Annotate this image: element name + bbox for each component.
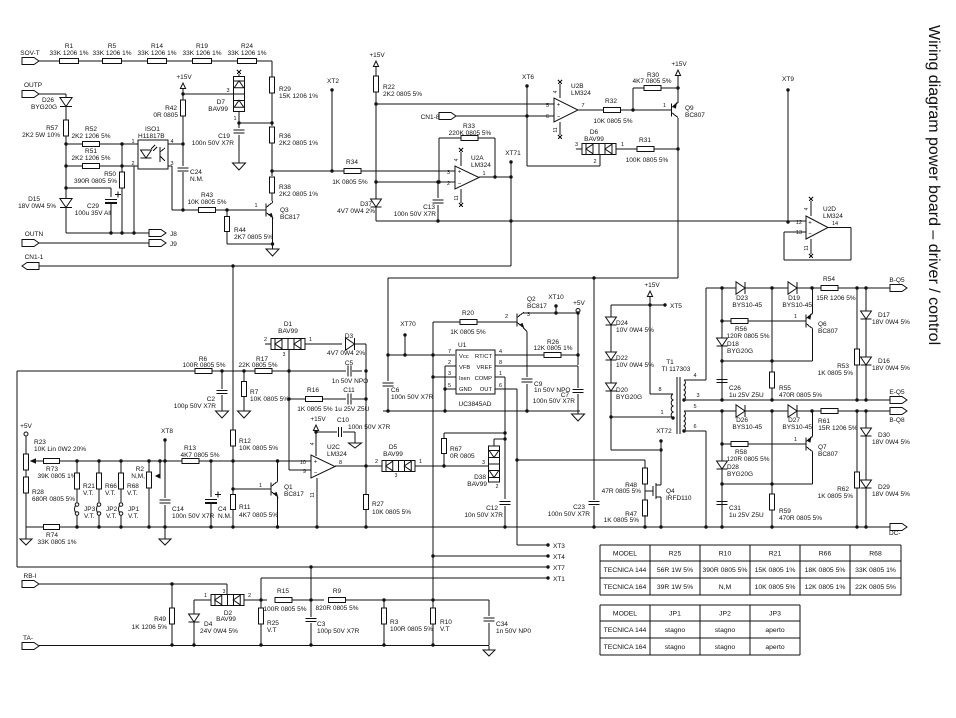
capacitor C4 electrolytic (210, 461, 212, 497)
wire Q9 collector down (677, 118, 679, 278)
node R59 mid (770, 482, 773, 485)
R2 wiper (158, 459, 161, 462)
svg-text:3: 3 (447, 170, 450, 176)
svg-text:2: 2 (505, 314, 508, 320)
optocoupler ISO1 (138, 140, 168, 169)
svg-text:R25: R25 (267, 620, 279, 627)
svg-text:18V 0W4 5%: 18V 0W4 5% (872, 319, 910, 326)
svg-text:C23: C23 (573, 504, 585, 511)
capacitor C19 (238, 123, 240, 128)
wire D5 to R67/D38 (415, 465, 489, 467)
node Vcc/R20 branch (431, 353, 434, 356)
svg-text:−: − (808, 232, 812, 238)
node Q3 emitter (271, 242, 274, 245)
node XT4 branch (431, 554, 434, 557)
svg-text:BYS10-45: BYS10-45 (782, 302, 812, 309)
node R30/+15V (676, 86, 679, 89)
svg-text:R56: R56 (735, 326, 747, 333)
wire Q7 collector line (722, 483, 813, 485)
svg-text:C29: C29 (87, 203, 99, 210)
wire R56 line (722, 320, 731, 322)
transistor Q7 BC807 pnp (805, 438, 807, 451)
svg-text:1K 0805 5%: 1K 0805 5% (332, 179, 368, 186)
svg-text:100n 50V X7R: 100n 50V X7R (533, 398, 576, 405)
svg-text:R55: R55 (779, 385, 791, 392)
transistor Q2 BC817 (516, 314, 518, 327)
svg-text:R22: R22 (383, 84, 395, 91)
node R53 top (855, 286, 858, 289)
svg-text:2: 2 (448, 360, 451, 366)
wire ISO pin4 to R42 line (168, 143, 183, 145)
svg-text:JP2: JP2 (106, 506, 118, 513)
diode D17 zener (865, 288, 867, 311)
node R50 bottom (120, 231, 123, 234)
svg-text:R52: R52 (85, 126, 97, 133)
svg-text:Vcc: Vcc (459, 354, 469, 360)
svg-text:4V7 0W4 2%: 4V7 0W4 2% (337, 208, 375, 215)
svg-text:XT72: XT72 (656, 428, 672, 435)
svg-text:BAV99: BAV99 (584, 136, 604, 143)
resistor R56 (731, 318, 748, 323)
capacitor C5 (347, 366, 349, 377)
node JP bottoms (75, 525, 78, 528)
svg-text:24V 0W4 5%: 24V 0W4 5% (200, 628, 238, 635)
svg-text:COMP: COMP (475, 376, 493, 382)
svg-text:BYG20G: BYG20G (31, 104, 57, 111)
svg-text:R68: R68 (869, 550, 882, 557)
U2D power pins (810, 201, 812, 216)
svg-text:BC807: BC807 (685, 112, 705, 119)
capacitor C29 electrolytic (105, 198, 117, 200)
wire R36 to node (271, 143, 273, 176)
svg-text:+15V: +15V (176, 74, 192, 81)
svg-text:C24: C24 (190, 169, 202, 176)
wire to C29 (66, 187, 111, 189)
op-amp U2A (454, 170, 456, 172)
node R62 rail (855, 525, 858, 528)
svg-text:U2B: U2B (571, 83, 584, 90)
svg-text:R36: R36 (279, 133, 291, 140)
wire RT/CT to R26 (495, 354, 544, 356)
node D4 rail (192, 643, 195, 646)
node T1 pin1 line (609, 415, 612, 418)
wire D28 vertical (721, 411, 723, 527)
svg-text:LM324: LM324 (471, 162, 491, 169)
svg-text:1: 1 (204, 593, 207, 599)
svg-text:D38: D38 (474, 474, 486, 481)
svg-text:LM324: LM324 (823, 213, 843, 220)
capacitor C12 (500, 500, 511, 502)
node R27 rail (364, 525, 367, 528)
capacitor C26 (721, 361, 723, 378)
resistor R32 (604, 107, 621, 112)
capacitor C9 (522, 378, 533, 380)
svg-text:+15V: +15V (671, 61, 687, 68)
wire R57 node down (65, 144, 67, 166)
svg-text:XT71: XT71 (505, 150, 521, 157)
wire R59 vertical (771, 411, 773, 494)
wire U2C pin9 (289, 469, 311, 471)
wire XT70 down (404, 335, 406, 355)
svg-text:V.T.: V.T. (128, 513, 139, 520)
node C6 bottom rail (386, 409, 389, 412)
svg-text:BC817: BC817 (284, 491, 304, 498)
svg-text:3: 3 (395, 473, 398, 479)
svg-text:IRFD110: IRFD110 (666, 495, 692, 502)
node R25 rail (259, 643, 262, 646)
svg-text:R14: R14 (151, 43, 163, 50)
svg-text:D20: D20 (616, 387, 628, 394)
svg-text:R42: R42 (165, 105, 177, 112)
svg-text:R23: R23 (34, 439, 46, 446)
svg-text:Q2: Q2 (527, 296, 536, 303)
svg-text:390R 0805 5%: 390R 0805 5% (74, 178, 117, 185)
ground XT8 (164, 527, 166, 539)
node R53 EQ5 (855, 398, 858, 401)
svg-text:4: 4 (454, 158, 460, 161)
diode D16 zener (861, 357, 872, 365)
wire XT3 line (517, 544, 548, 546)
node Isen (431, 375, 434, 378)
resistor R74 (44, 524, 60, 529)
svg-text:R27: R27 (372, 501, 384, 508)
svg-text:3: 3 (448, 371, 451, 377)
svg-text:D4: D4 (204, 621, 213, 628)
node +15V R42/D7 (181, 92, 184, 95)
connector SOV-T (22, 58, 39, 65)
svg-text:1u 25V Z5U: 1u 25V Z5U (729, 512, 764, 519)
svg-text:V.T.: V.T. (83, 490, 94, 497)
jumper JP1 (119, 503, 123, 507)
svg-text:33K 1206 1%: 33K 1206 1% (92, 50, 131, 57)
svg-text:R32: R32 (605, 98, 617, 105)
resistor R49 (171, 584, 173, 608)
svg-text:J9: J9 (170, 241, 177, 248)
svg-text:D1: D1 (284, 321, 293, 328)
svg-text:6: 6 (546, 114, 549, 120)
node R47 rail (643, 525, 646, 528)
svg-text:3: 3 (696, 393, 699, 399)
svg-text:1: 1 (499, 371, 502, 377)
node R55 EQ5 (770, 398, 773, 401)
svg-text:U2C: U2C (327, 444, 340, 451)
svg-text:CN1-8: CN1-8 (421, 114, 440, 121)
node Q4 source rail (659, 525, 662, 528)
diode D28 zener (717, 461, 728, 469)
wire ISO pin3 to R43 line (168, 165, 172, 167)
wire R16 line (289, 398, 306, 400)
svg-text:BAV99: BAV99 (383, 451, 403, 458)
svg-text:100n 50V X7R: 100n 50V X7R (548, 511, 591, 518)
svg-text:2K7 0805 5%: 2K7 0805 5% (234, 234, 273, 241)
svg-text:2: 2 (264, 337, 267, 343)
resistor R73 (44, 458, 60, 463)
node U2C out/R27 (364, 464, 367, 467)
resistor R59 (769, 494, 774, 510)
svg-text:4V7 0W4 2%: 4V7 0W4 2% (327, 350, 365, 357)
node GND pin5 to rail (443, 387, 446, 390)
svg-text:8: 8 (499, 360, 502, 366)
svg-text:V.T.: V.T. (84, 513, 95, 520)
wire node down to D15 (65, 166, 67, 199)
svg-text:33K 1206 1%: 33K 1206 1% (182, 50, 221, 57)
svg-text:5: 5 (448, 383, 451, 389)
resistor R30 wire (632, 88, 634, 110)
node Vcc line left (386, 353, 389, 356)
diode D23 (736, 282, 745, 294)
svg-text:XT6: XT6 (522, 74, 534, 81)
svg-text:100p 50V X7R: 100p 50V X7R (174, 403, 217, 410)
svg-text:R3: R3 (390, 619, 399, 626)
svg-text:B-Q8: B-Q8 (889, 417, 905, 424)
wire E-Q5 rail (684, 399, 890, 401)
svg-text:BYS10-45: BYS10-45 (782, 424, 812, 431)
svg-text:10V 0W4 5%: 10V 0W4 5% (616, 362, 654, 369)
capacitor C24 (178, 167, 189, 169)
svg-text:N.M.: N.M. (218, 513, 232, 520)
ground C19 (233, 163, 246, 170)
wire R73 to rail (59, 460, 182, 462)
wire D38 branch (494, 438, 505, 440)
wire +15V to D7 pin3 (183, 93, 234, 95)
ground left rail (25, 527, 27, 539)
wire J8 line (66, 232, 149, 234)
svg-text:6: 6 (499, 383, 502, 389)
svg-text:56R 1W 5%: 56R 1W 5% (657, 567, 693, 574)
svg-text:2K2 5W 10%: 2K2 5W 10% (22, 132, 60, 139)
node XT7 (546, 565, 549, 568)
svg-text:R2: R2 (136, 466, 145, 473)
svg-text:+: + (314, 460, 318, 466)
resistor R55 (769, 372, 774, 388)
svg-text:T1: T1 (666, 359, 674, 366)
node XT70/Vcc (403, 353, 406, 356)
wire VREF pin8 (495, 365, 578, 367)
svg-text:15R 1206 5%: 15R 1206 5% (818, 425, 858, 432)
wire U2C out (335, 465, 382, 467)
resistor R21 V.T. (75, 459, 78, 462)
diode D20 zener (606, 383, 617, 391)
svg-text:2: 2 (248, 593, 251, 599)
wire R50 vertical link (121, 144, 123, 172)
wire R20/Isen vertical (432, 322, 434, 645)
jumper JP3 (75, 503, 79, 507)
svg-text:1: 1 (419, 459, 422, 465)
diode D18 zener (717, 338, 728, 346)
svg-text:D16: D16 (878, 358, 890, 365)
svg-text:stagno: stagno (665, 644, 686, 651)
node T1 pin5 (720, 409, 723, 412)
diode D15 zener (60, 199, 72, 208)
svg-text:D26: D26 (736, 417, 748, 424)
node D18/C26 (720, 359, 723, 362)
wire U2D feedback loop (784, 231, 806, 233)
svg-text:R25: R25 (669, 550, 682, 557)
resistor R66 V.T. (97, 459, 100, 462)
svg-text:ISO1: ISO1 (145, 126, 160, 133)
node R49 rail (170, 643, 173, 646)
wire U2A output (479, 176, 511, 178)
wire Q1 base (233, 488, 271, 490)
resistor R24 (238, 58, 257, 63)
svg-text:C31: C31 (729, 505, 741, 512)
svg-text:GND: GND (459, 387, 472, 393)
node CN1-1/R12 branch (231, 264, 234, 267)
svg-text:33K 0805 1%: 33K 0805 1% (855, 567, 896, 574)
node D18 top (720, 286, 723, 289)
svg-text:15K 1206 1%: 15K 1206 1% (279, 93, 318, 100)
node C23 bottom rail (592, 525, 595, 528)
node OUT/R48 line (515, 458, 518, 461)
svg-text:7: 7 (448, 349, 451, 355)
svg-text:10n 50V X7R: 10n 50V X7R (464, 512, 503, 519)
svg-text:R38: R38 (279, 184, 291, 191)
node R10 rail (431, 643, 434, 646)
node D29 rail (864, 525, 867, 528)
svg-text:N.M.: N.M. (190, 176, 204, 183)
svg-text:DC-: DC- (889, 530, 901, 537)
svg-text:2: 2 (447, 181, 450, 187)
wire XT9 down (787, 90, 789, 222)
svg-text:−: − (458, 182, 462, 188)
node pin2 bottom (132, 231, 135, 234)
node D28/C31 (720, 482, 723, 485)
node D2/R25/XT1 (259, 598, 262, 601)
wire D7 pin1 down (238, 112, 240, 124)
svg-text:1: 1 (131, 139, 134, 145)
capacitor C3 (310, 600, 312, 617)
node R56 line (720, 319, 723, 322)
svg-text:100p 50V X7R: 100p 50V X7R (317, 628, 360, 635)
wire CN1-1 to R12 (232, 266, 234, 430)
node R3 rail (382, 643, 385, 646)
svg-text:22K 0805 5%: 22K 0805 5% (238, 362, 277, 369)
node R15/R9/C3 (309, 598, 312, 601)
dual diode D6 (582, 144, 616, 155)
node R22/U2B+ line (374, 102, 377, 105)
svg-text:U2A: U2A (471, 155, 484, 162)
svg-text:680R 0805 5%: 680R 0805 5% (32, 496, 75, 503)
node Q9/R31 (676, 147, 679, 150)
transistor Q9 BC807 pnp (671, 104, 673, 117)
resistor R16 (306, 396, 323, 401)
svg-text:220K 0805 5%: 220K 0805 5% (449, 130, 492, 137)
wire to U2B+ (376, 103, 554, 105)
svg-text:47R 0805 5%: 47R 0805 5% (602, 488, 642, 495)
node D1 pin3 (287, 369, 290, 372)
op-amp U2B (554, 98, 578, 122)
svg-text:D23: D23 (736, 295, 748, 302)
svg-text:C11: C11 (343, 387, 355, 394)
svg-text:R21: R21 (83, 483, 95, 490)
node C13 top (436, 180, 439, 183)
wire R50 to J8 line (121, 188, 123, 233)
node +15V/T1 pin8 (648, 303, 651, 306)
wire Q1 collector/emitter (277, 461, 279, 481)
svg-text:8: 8 (658, 387, 661, 393)
svg-text:BYG20G: BYG20G (727, 348, 753, 355)
svg-text:R49: R49 (154, 616, 166, 623)
svg-text:R5: R5 (108, 43, 117, 50)
resistor R14 (148, 58, 167, 63)
resistor R42 (180, 100, 185, 116)
svg-text:C2: C2 (207, 396, 216, 403)
resistor R5 (103, 58, 122, 63)
node R33 feedback left (437, 180, 440, 183)
diode D22 zener (606, 352, 617, 360)
svg-text:C4: C4 (218, 506, 227, 513)
U2C power pin bottom (316, 478, 318, 527)
svg-text:XT2: XT2 (327, 78, 339, 85)
svg-text:33K 0805 1%: 33K 0805 1% (37, 539, 76, 546)
svg-text:D3: D3 (345, 333, 354, 340)
svg-text:R9: R9 (333, 588, 342, 595)
wire D6 to R31 (616, 148, 637, 150)
wire D1 to D3 (305, 343, 342, 345)
svg-text:4K7 0805 5%: 4K7 0805 5% (239, 512, 278, 519)
node D30 top (864, 409, 867, 412)
svg-text:R31: R31 (639, 137, 651, 144)
svg-text:R24: R24 (241, 43, 253, 50)
table jumper settings (600, 604, 800, 606)
resistor R50 (119, 172, 124, 188)
node C14 gnd (163, 525, 166, 528)
svg-text:33K 1206 1%: 33K 1206 1% (49, 50, 88, 57)
wire Isen pin3 (433, 376, 456, 378)
node R51 left (64, 164, 67, 167)
svg-text:1: 1 (309, 337, 312, 343)
resistor R30 (644, 85, 661, 90)
dual diode D7 (234, 77, 245, 112)
connector B-Q8 (890, 408, 907, 415)
svg-text:2K2 0805 1%: 2K2 0805 1% (279, 191, 318, 198)
svg-text:0R 0805: 0R 0805 (153, 112, 178, 119)
svg-text:D30: D30 (878, 432, 890, 439)
svg-text:22K 0805 5%: 22K 0805 5% (855, 584, 896, 591)
resistor R1 (60, 58, 79, 63)
IC U1 UC3845AD (456, 350, 495, 394)
wire Q7 collector down (812, 452, 814, 485)
wire R38 to Q3 (271, 193, 273, 201)
svg-text:U2D: U2D (823, 206, 836, 213)
svg-text:R44: R44 (234, 227, 246, 234)
resistor R15 (275, 597, 292, 602)
resistor R62 (856, 411, 858, 472)
wire T1 pin5 (684, 410, 722, 412)
svg-text:BAV99: BAV99 (208, 106, 228, 113)
node R7 (242, 369, 245, 372)
wire C29 down (110, 204, 112, 233)
svg-text:R21: R21 (769, 550, 782, 557)
resistor R58 (731, 441, 748, 446)
svg-text:100u 35V All: 100u 35V All (75, 210, 112, 217)
node R29/R36/D7 (270, 121, 273, 124)
resistor R33 feedback (438, 138, 440, 182)
node Q6 emitter (810, 286, 813, 289)
wire U1 gnd rail (383, 410, 580, 412)
svg-text:100n 50V X7R: 100n 50V X7R (391, 394, 434, 401)
connector B-Q5 (890, 285, 907, 292)
wire analog gnd line y221 (376, 220, 806, 222)
ground R7 (243, 396, 245, 411)
svg-text:33K 1206 1%: 33K 1206 1% (227, 50, 266, 57)
svg-text:BC817: BC817 (280, 214, 300, 221)
node R58 line (720, 442, 723, 445)
node R2 bottom rail (147, 525, 150, 528)
resistor R6 (195, 368, 212, 373)
svg-text:18K 0805 5%: 18K 0805 5% (805, 567, 846, 574)
node D26/R59 branch (770, 409, 773, 412)
